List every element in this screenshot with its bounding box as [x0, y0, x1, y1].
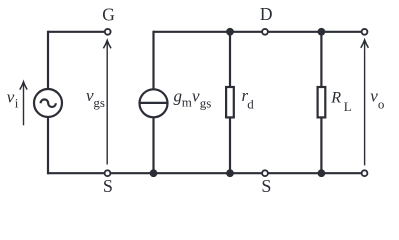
terminal output top (open circle)	[362, 29, 368, 35]
junction dot top rail at RL	[318, 28, 326, 36]
svg-text:m: m	[182, 95, 192, 110]
svg-text:v: v	[192, 87, 200, 106]
wire left column bottom	[47, 117, 49, 174]
wire left column top	[47, 31, 49, 90]
svg-text:v: v	[7, 87, 15, 106]
dependent current source gm*vgs (circle with bar)	[140, 89, 168, 117]
wire bottom rail segment 2	[111, 172, 262, 174]
resistor RL	[318, 87, 326, 117]
svg-text:S: S	[103, 176, 113, 196]
svg-text:o: o	[378, 97, 385, 112]
svg-text:S: S	[261, 176, 271, 196]
junction dot top rail at rd	[226, 28, 234, 36]
wire RL column top	[320, 32, 322, 87]
svg-text:L: L	[344, 99, 352, 114]
svg-text:R: R	[330, 90, 341, 107]
svg-text:D: D	[260, 4, 273, 24]
terminal D (open circle)	[262, 29, 268, 35]
svg-text:d: d	[247, 96, 254, 111]
wire bottom rail segment 1	[48, 172, 104, 174]
wire dependent source column bottom	[152, 117, 154, 173]
wire dependent source column top	[152, 31, 154, 90]
terminal S right (open circle)	[262, 170, 268, 176]
wire rd column bottom	[229, 118, 231, 173]
svg-text:i: i	[15, 95, 19, 110]
svg-text:g: g	[174, 87, 183, 106]
wire top rail segment 3	[268, 31, 361, 33]
terminal output bottom (open circle)	[362, 170, 368, 176]
wire bottom rail segment 3	[268, 172, 361, 174]
svg-text:G: G	[102, 5, 115, 25]
terminal G (open circle)	[105, 29, 111, 35]
svg-text:gs: gs	[200, 96, 212, 111]
source vi (AC source circle with sine)	[34, 89, 62, 117]
arrow vgs	[103, 40, 111, 164]
junction dot bottom rail at rd	[226, 169, 234, 177]
arrow vi	[20, 82, 27, 126]
wire rd column top	[229, 32, 231, 87]
junction dot bottom rail at RL	[318, 169, 326, 177]
junction dot bottom rail at source column	[150, 169, 158, 177]
wire RL column bottom	[320, 118, 322, 174]
resistor rd	[226, 87, 234, 117]
arrow vo	[361, 40, 369, 166]
wire top rail left segment	[48, 31, 105, 33]
svg-text:gs: gs	[93, 95, 105, 110]
terminal S left (open circle)	[105, 170, 111, 176]
wire top rail segment 2	[154, 31, 262, 33]
